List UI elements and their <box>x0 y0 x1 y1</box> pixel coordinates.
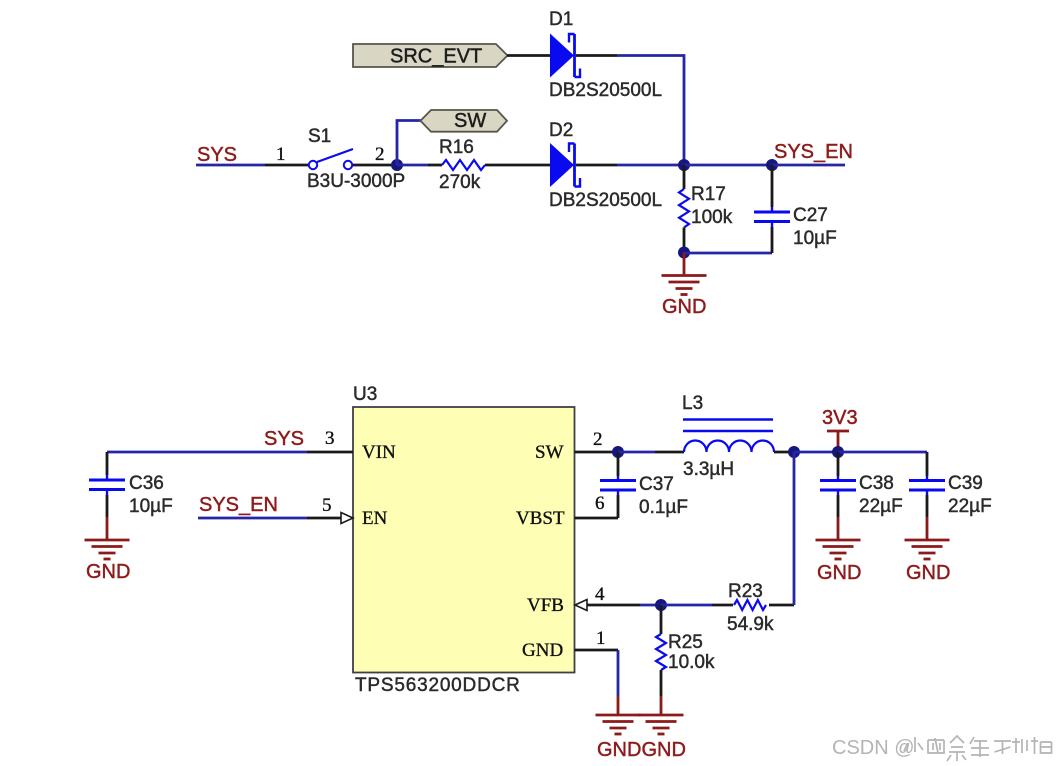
svg-text:DB2S20500L: DB2S20500L <box>549 190 662 211</box>
pin name VIN <box>362 442 396 463</box>
junction VFB/R25 <box>655 599 667 611</box>
junction at S1/R16/SW <box>391 159 403 171</box>
designator D2 <box>549 120 573 141</box>
svg-text:GND: GND <box>522 640 563 661</box>
ground symbol under R25 <box>639 696 684 734</box>
capacitor C38 <box>820 452 856 517</box>
wire junction to 3V3 junction <box>794 451 838 454</box>
svg-text:C27: C27 <box>793 205 828 226</box>
svg-text:VBST: VBST <box>516 508 565 529</box>
pin number 1 of S1 <box>276 144 286 165</box>
value 10uF <box>129 496 173 517</box>
svg-text:6: 6 <box>595 493 605 514</box>
svg-text:C36: C36 <box>129 473 164 494</box>
power port 3V3 <box>822 407 858 452</box>
resistor R25 <box>656 605 666 696</box>
svg-text:2: 2 <box>375 144 385 165</box>
svg-text:S1: S1 <box>308 126 331 147</box>
input arrow at VFB pin <box>575 600 587 611</box>
watermark hanzi <box>904 736 1052 761</box>
junction L3 out <box>788 446 800 458</box>
input arrow at EN pin <box>341 513 353 524</box>
wire switch to junction <box>353 164 397 167</box>
node SYS_EN net label <box>774 141 853 163</box>
svg-text:3V3: 3V3 <box>822 407 858 429</box>
wire VFB to junction <box>587 604 661 607</box>
junction at SW/C37 <box>612 446 624 458</box>
resistor R23 <box>734 600 766 610</box>
value 54.9k <box>727 614 774 635</box>
value 100k <box>691 207 733 228</box>
svg-text:22µF: 22µF <box>948 496 992 517</box>
ground symbol under C36 <box>85 517 130 559</box>
ground symbol under C39 <box>905 517 950 559</box>
wire junction to R23 <box>661 604 733 607</box>
resistor R16 <box>442 160 485 170</box>
svg-text:10.0k: 10.0k <box>668 652 715 673</box>
value 3.3uH <box>683 459 734 480</box>
svg-text:2: 2 <box>593 429 603 450</box>
ground symbol under C38 <box>816 517 861 559</box>
svg-text:5: 5 <box>322 495 332 516</box>
diode D2 <box>550 143 580 187</box>
pin name SW <box>535 442 564 463</box>
port SW <box>421 110 508 132</box>
wire R23 to 3V3 node <box>769 452 794 605</box>
svg-text:GND: GND <box>86 561 130 583</box>
svg-text:C39: C39 <box>948 473 983 494</box>
svg-text:3.3µH: 3.3µH <box>683 459 734 480</box>
svg-text:U3: U3 <box>353 384 377 405</box>
value 22uF of C39 <box>948 496 992 517</box>
value TPS563200DDCR <box>355 675 521 696</box>
svg-text:GNDGND: GNDGND <box>597 739 686 761</box>
value B3U-3000P <box>307 171 405 192</box>
svg-text:GND: GND <box>817 562 861 584</box>
wire to SYS_EN right end <box>772 164 845 167</box>
svg-text:L3: L3 <box>682 393 703 414</box>
svg-text:22µF: 22µF <box>859 496 903 517</box>
svg-text:VFB: VFB <box>527 595 564 616</box>
ground symbol under GND pin <box>596 696 641 734</box>
pin number 4 <box>595 584 605 605</box>
svg-text:B3U-3000P: B3U-3000P <box>307 171 405 192</box>
svg-text:GND: GND <box>906 562 950 584</box>
pin name VBST <box>516 508 565 529</box>
svg-text:10µF: 10µF <box>129 496 173 517</box>
svg-text:SYS: SYS <box>264 428 304 450</box>
watermark CSDN <box>832 737 915 759</box>
designator S1 <box>308 126 331 147</box>
pin number 1 <box>596 628 606 649</box>
wire junction to SYS_EN <box>684 164 772 167</box>
designator R17 <box>691 184 726 205</box>
designator C39 <box>948 473 983 494</box>
GND label top <box>662 296 706 318</box>
node SYS net label bottom <box>264 428 304 450</box>
wire junction to R16 <box>397 164 442 167</box>
wire junction up to SW port <box>397 121 425 166</box>
wire SYS_EN to EN <box>198 517 341 520</box>
designator R23 <box>728 581 763 602</box>
GND label under C39 <box>906 562 950 584</box>
svg-text:R23: R23 <box>728 581 763 602</box>
svg-text:SW: SW <box>535 442 564 463</box>
pin number 6 <box>595 493 605 514</box>
wire SRC_EVT to D1 <box>507 54 551 57</box>
junction at C27 <box>766 159 778 171</box>
svg-text:1: 1 <box>276 144 286 165</box>
capacitor C36 <box>89 452 125 517</box>
svg-text:SYS_EN: SYS_EN <box>199 494 278 516</box>
wire bottom R17 to C27 <box>684 252 772 255</box>
svg-text:1: 1 <box>596 628 606 649</box>
svg-text:10µF: 10µF <box>793 228 837 249</box>
designator R25 <box>668 632 703 653</box>
wire GND pin to ground <box>575 650 619 696</box>
svg-text:C37: C37 <box>639 474 674 495</box>
svg-text:3: 3 <box>325 428 335 449</box>
pin number 2 of S1 <box>375 144 385 165</box>
wire D2 to right junction <box>576 164 684 167</box>
pin name VFB <box>527 595 564 616</box>
svg-text:D1: D1 <box>549 9 573 30</box>
designator U3 <box>353 384 377 405</box>
svg-text:SYS: SYS <box>197 144 237 166</box>
ground symbol under R17 <box>662 253 707 295</box>
designator R16 <box>439 137 474 158</box>
svg-text:TPS563200DDCR: TPS563200DDCR <box>355 675 521 696</box>
value DB2S20500L of D2 <box>549 190 662 211</box>
wire SW pin to junction <box>575 451 619 454</box>
pin number 2 <box>593 429 603 450</box>
switch S1 <box>309 149 353 169</box>
svg-text:SRC_EVT: SRC_EVT <box>390 46 482 68</box>
svg-text:54.9k: 54.9k <box>727 614 774 635</box>
svg-text:D2: D2 <box>549 120 573 141</box>
value 270k <box>439 172 481 193</box>
designator C38 <box>859 473 894 494</box>
svg-text:VIN: VIN <box>362 442 396 463</box>
resistor R17 <box>679 165 689 247</box>
wire C36 to VIN <box>107 451 353 454</box>
wire L3 to junction <box>774 451 794 454</box>
value DB2S20500L of D1 <box>549 80 662 101</box>
svg-text:DB2S20500L: DB2S20500L <box>549 80 662 101</box>
svg-text:SYS_EN: SYS_EN <box>774 141 853 163</box>
pin number 3 <box>325 428 335 449</box>
svg-text:R17: R17 <box>691 184 726 205</box>
inductor L3 <box>683 420 774 453</box>
capacitor C39 <box>909 476 945 517</box>
node SYS net label <box>197 144 237 166</box>
value 10uF <box>793 228 837 249</box>
svg-text:100k: 100k <box>691 207 733 228</box>
svg-text:EN: EN <box>362 508 388 529</box>
svg-text:GND: GND <box>662 296 706 318</box>
designator C37 <box>639 474 674 495</box>
value 0.1uF <box>639 497 688 518</box>
svg-text:R16: R16 <box>439 137 474 158</box>
wire SYS to switch S1 <box>196 164 308 167</box>
capacitor C27 <box>754 165 790 253</box>
pin number 5 <box>322 495 332 516</box>
capacitor C37 <box>600 452 636 518</box>
value 10.0k <box>668 652 715 673</box>
wire R16 to D2 <box>485 164 551 167</box>
node SYS_EN net label bottom <box>199 494 278 516</box>
svg-text:C38: C38 <box>859 473 894 494</box>
svg-text:CSDN @: CSDN @ <box>832 737 915 759</box>
port SRC_EVT <box>353 44 508 68</box>
chip U3 body <box>353 407 575 673</box>
value 22uF of C38 <box>859 496 903 517</box>
junction R17/C27 bottom <box>678 247 690 259</box>
designator C27 <box>793 205 828 226</box>
wire junction to L3 <box>618 451 684 454</box>
designator L3 <box>682 393 703 414</box>
junction D1/D2/R17 <box>678 159 690 171</box>
designator C36 <box>129 473 164 494</box>
pin name EN <box>362 508 388 529</box>
wire C37 to VBST pin <box>575 517 619 520</box>
svg-text:4: 4 <box>595 584 605 605</box>
diode D1 <box>550 34 580 78</box>
GND label under C36 <box>86 561 130 583</box>
wire 3V3 junction to C39 <box>838 452 927 476</box>
svg-text:0.1µF: 0.1µF <box>639 497 688 518</box>
svg-text:SW: SW <box>454 110 486 132</box>
GND label pair <box>597 739 686 761</box>
svg-text:R25: R25 <box>668 632 703 653</box>
junction at 3V3/C38 <box>832 446 844 458</box>
GND label under C38 <box>817 562 861 584</box>
wire D1 to corner and down <box>576 56 684 166</box>
designator D1 <box>549 9 573 30</box>
pin name GND <box>522 640 563 661</box>
svg-text:270k: 270k <box>439 172 481 193</box>
